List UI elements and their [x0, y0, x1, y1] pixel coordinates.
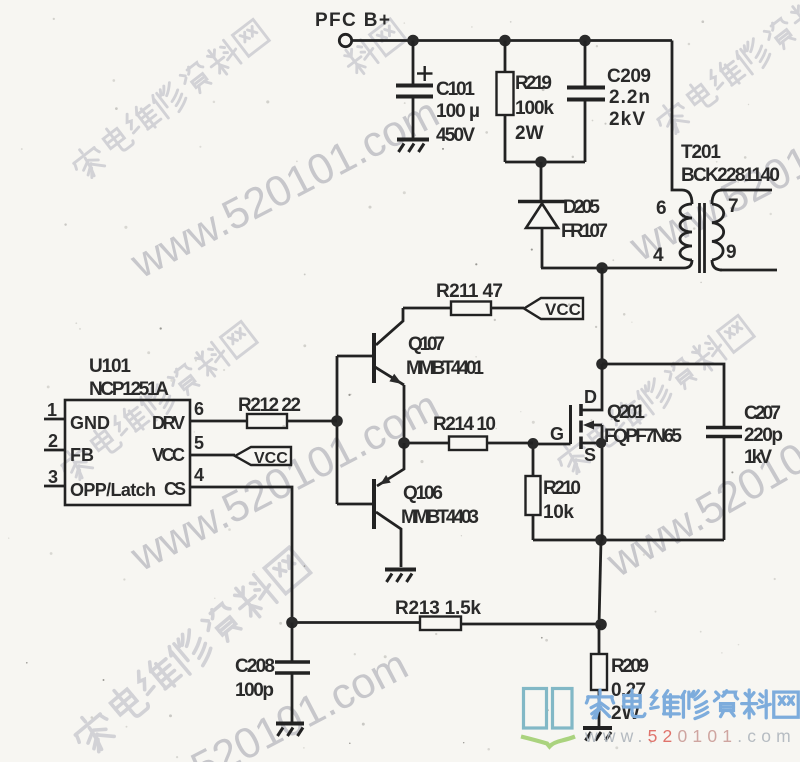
svg-text:450V: 450V — [436, 125, 475, 146]
junction dot R219 top — [499, 35, 511, 47]
svg-text:220p: 220p — [744, 425, 783, 446]
svg-text:FQPF7N65: FQPF7N65 — [604, 426, 682, 447]
svg-text:Q201: Q201 — [607, 402, 645, 423]
svg-text:R213 1.5k: R213 1.5k — [395, 598, 481, 619]
transistor Q107 MMBT4401 — [374, 308, 484, 443]
svg-text:C208: C208 — [235, 656, 275, 677]
logo book icon — [521, 689, 575, 747]
wire D205 to T201 pin4 — [541, 267, 684, 270]
svg-text:R211 47: R211 47 — [436, 281, 503, 302]
svg-text:100 µ: 100 µ — [436, 101, 480, 122]
wire top rail — [352, 39, 672, 42]
junction dot base node — [331, 415, 343, 427]
svg-text:MMBT4401: MMBT4401 — [406, 358, 484, 379]
svg-text:www.520101.com: www.520101.com — [584, 726, 796, 746]
svg-text:9: 9 — [726, 242, 737, 263]
svg-text:GND: GND — [70, 413, 110, 433]
junction dot C101 top — [407, 35, 419, 47]
svg-text:D205: D205 — [563, 197, 600, 218]
watermark CN band above-PFC fragment — [340, 17, 407, 78]
watermark CN band bottom-left — [68, 545, 312, 758]
svg-text:NCP1251A: NCP1251A — [89, 379, 169, 400]
junction dot gate node — [528, 438, 539, 449]
junction dot source bottom — [595, 534, 607, 546]
watermark CN band right-middle — [553, 314, 755, 479]
svg-text:R219: R219 — [515, 73, 552, 94]
watermark CN band top-left — [68, 18, 270, 183]
wire base column — [336, 356, 339, 504]
pin 1 — [44, 418, 65, 421]
svg-text:1kV: 1kV — [744, 447, 772, 468]
svg-text:C209: C209 — [607, 66, 651, 87]
svg-text:4: 4 — [653, 245, 664, 266]
capacitor C101 — [396, 41, 480, 147]
diode D205 FR107 — [518, 197, 608, 268]
primary winding pin6-pin4 — [682, 190, 692, 204]
svg-text:G: G — [550, 424, 564, 444]
wire base stub Q107 — [337, 355, 372, 358]
svg-text:2.2n: 2.2n — [609, 87, 650, 108]
wire pin7 lead — [720, 189, 772, 192]
watermark CN band top-right — [652, 0, 800, 139]
svg-text:6: 6 — [656, 198, 667, 219]
transformer T201 — [653, 142, 780, 273]
watermark CN band mid-left — [56, 320, 258, 485]
wire R219/C209 bottom link — [505, 161, 585, 164]
logo text CN — [586, 690, 798, 719]
IC U101 NCP1251A — [44, 356, 204, 505]
resistor R212 — [190, 395, 337, 428]
svg-text:BCK2281140: BCK2281140 — [681, 165, 780, 186]
secondary winding pin7-pin9 — [712, 190, 722, 204]
wire top rail drop to T201 pin6 — [672, 41, 682, 191]
wire drain to C207 — [602, 364, 724, 426]
svg-text:4: 4 — [194, 465, 204, 485]
svg-text:2: 2 — [48, 431, 58, 451]
svg-text:PFC B+: PFC B+ — [315, 10, 390, 31]
wire base stub Q106 — [337, 503, 372, 506]
pin 2 — [44, 449, 65, 452]
svg-text:D: D — [584, 387, 597, 407]
svg-text:OPP/Latch: OPP/Latch — [70, 480, 156, 500]
ground Q106 — [385, 570, 416, 583]
logo layer — [521, 689, 798, 747]
resistor R213 — [395, 598, 601, 630]
junction dot emitter node — [398, 437, 410, 449]
wire R213 row — [292, 621, 420, 624]
capacitor C208 — [235, 623, 310, 723]
wire drain node vertical — [601, 268, 604, 364]
svg-text:T201: T201 — [681, 142, 721, 163]
svg-text:MMBT4403: MMBT4403 — [401, 507, 479, 528]
VCC tag left — [235, 447, 291, 467]
svg-text:VCC: VCC — [254, 450, 288, 467]
ground C101 — [397, 140, 429, 153]
terminal PFC B+ — [339, 34, 351, 46]
wire source bottom link — [533, 539, 724, 542]
resistor R214 — [404, 414, 533, 450]
svg-text:Q107: Q107 — [408, 334, 445, 355]
transistor Q201 FQPF7N65 — [533, 364, 682, 541]
svg-text:R209: R209 — [611, 656, 649, 677]
VCC tag right — [524, 298, 583, 319]
svg-text:5: 5 — [194, 433, 204, 453]
junction dot drain top — [596, 358, 608, 370]
junction dot CS node — [286, 617, 298, 629]
wire lower column — [599, 540, 601, 625]
junction dot R213 right — [595, 619, 607, 631]
wire VCC pin5 stub — [190, 454, 235, 457]
svg-text:Q106: Q106 — [403, 483, 443, 504]
svg-text:DRV: DRV — [152, 413, 185, 433]
core — [698, 203, 701, 273]
svg-text:CS: CS — [164, 479, 186, 499]
wire to D205 — [540, 162, 543, 200]
svg-text:C101: C101 — [436, 79, 475, 100]
svg-text:VCC: VCC — [152, 445, 185, 465]
ground R209 — [583, 728, 612, 741]
svg-text:10k: 10k — [543, 502, 574, 523]
transistor Q106 MMBT4403 — [374, 443, 479, 567]
svg-text:R210: R210 — [543, 478, 581, 499]
svg-text:S: S — [584, 445, 596, 465]
svg-text:C207: C207 — [744, 403, 781, 424]
svg-text:1: 1 — [47, 400, 57, 420]
svg-text:U101: U101 — [89, 356, 131, 377]
svg-text:2W: 2W — [515, 123, 544, 144]
svg-text:6: 6 — [194, 399, 204, 419]
wire CS pin4 — [190, 487, 292, 622]
svg-text:FR107: FR107 — [561, 221, 608, 242]
svg-text:2kV: 2kV — [609, 109, 645, 130]
svg-text:VCC: VCC — [545, 300, 581, 319]
junction dot D205 top — [535, 156, 547, 168]
ground C208 — [276, 724, 304, 737]
resistor R209 — [591, 625, 649, 727]
junction dot C209 top — [579, 35, 591, 47]
svg-text:R214 10: R214 10 — [433, 414, 496, 435]
wire pin9 lead — [720, 269, 777, 272]
capacitor C209 — [567, 41, 651, 163]
svg-text:3: 3 — [48, 467, 58, 487]
resistor R211 — [403, 281, 524, 315]
pin 3 — [44, 485, 65, 488]
capacitor C207 — [706, 403, 783, 540]
svg-text:100p: 100p — [235, 680, 274, 701]
resistor R210 — [526, 444, 582, 540]
svg-text:100k: 100k — [515, 98, 554, 119]
junction dot drain branch — [596, 262, 608, 274]
svg-text:7: 7 — [728, 196, 739, 217]
svg-text:FB: FB — [70, 445, 94, 465]
resistor R219 — [497, 41, 555, 163]
svg-text:R212 22: R212 22 — [238, 395, 301, 416]
